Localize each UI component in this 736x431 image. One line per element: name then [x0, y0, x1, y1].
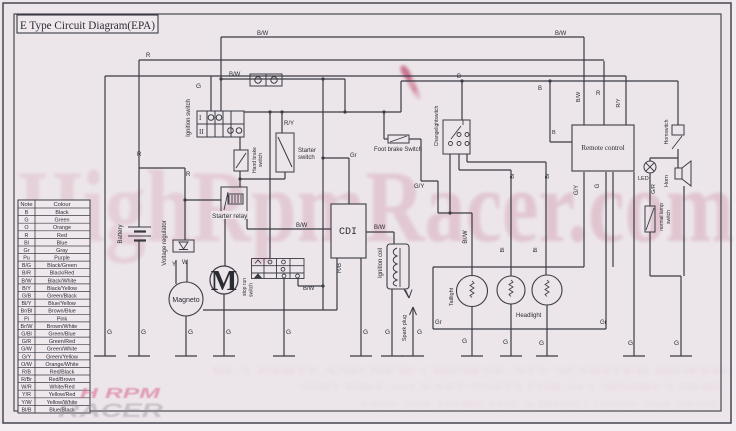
svg-text:Headlight: Headlight [516, 313, 542, 319]
svg-text:R/B: R/B [22, 369, 31, 375]
svg-text:B/W: B/W [555, 31, 567, 37]
svg-text:B: B [552, 130, 556, 136]
svg-text:Remote control: Remote control [581, 144, 624, 152]
svg-text:Orange/White: Orange/White [45, 362, 78, 368]
svg-text:Brown/White: Brown/White [47, 324, 78, 330]
svg-text:Black/Yellow: Black/Yellow [47, 286, 77, 292]
svg-text:G/W: G/W [21, 347, 33, 353]
svg-text:Ignition coil: Ignition coil [378, 248, 384, 278]
svg-text:G: G [24, 218, 28, 224]
svg-text:R: R [596, 91, 601, 97]
svg-text:O/W: O/W [21, 362, 33, 368]
svg-text:Gr: Gr [435, 320, 442, 326]
svg-text:Br/W: Br/W [463, 230, 469, 244]
svg-text:Yellow/Red: Yellow/Red [49, 392, 76, 398]
svg-text:Green/White: Green/White [47, 347, 77, 353]
svg-text:R/B: R/B [337, 263, 343, 273]
svg-text:Green/Blue: Green/Blue [48, 332, 75, 338]
svg-text:Black/Green: Black/Green [47, 263, 77, 269]
svg-text:Gr: Gr [350, 153, 357, 159]
svg-text:G: G [226, 329, 231, 336]
svg-text:W: W [182, 260, 188, 266]
svg-text:G/B: G/B [22, 294, 32, 300]
svg-text:B: B [457, 74, 461, 80]
svg-text:B/R: B/R [22, 271, 31, 277]
svg-text:G: G [107, 329, 112, 336]
svg-text:W/R: W/R [21, 385, 32, 391]
svg-text:R: R [137, 152, 142, 158]
svg-text:R/Y: R/Y [616, 98, 622, 108]
svg-text:Green/Yellow: Green/Yellow [46, 354, 78, 360]
svg-text:H RPM: H RPM [80, 385, 161, 402]
svg-text:Changelightswitch: Changelightswitch [434, 105, 440, 146]
svg-text:II: II [199, 128, 204, 136]
svg-text:G: G [628, 340, 633, 347]
svg-text:R/Y: R/Y [284, 121, 294, 127]
svg-text:stop run: stop run [242, 278, 248, 296]
svg-text:Horn: Horn [664, 175, 670, 187]
svg-text:B/W: B/W [257, 31, 269, 37]
svg-text:G: G [188, 329, 193, 336]
svg-text:Red/Black: Red/Black [50, 369, 75, 375]
svg-text:G/Y: G/Y [22, 354, 32, 360]
svg-text:O: O [24, 225, 28, 231]
svg-text:Y/R: Y/R [22, 392, 31, 398]
svg-text:Green/Black: Green/Black [47, 294, 77, 300]
svg-text:G: G [674, 340, 679, 347]
svg-text:G/Bl: G/Bl [21, 332, 31, 338]
svg-text:G: G [462, 338, 467, 345]
svg-text:switch: switch [249, 283, 255, 297]
svg-text:switch: switch [258, 153, 264, 167]
svg-text:Y: Y [172, 262, 176, 268]
svg-text:Bl: Bl [500, 248, 506, 253]
svg-text:G: G [595, 183, 601, 188]
svg-text:Br/Bl: Br/Bl [21, 309, 33, 315]
svg-text:Blue: Blue [57, 240, 68, 246]
svg-text:Magneto: Magneto [172, 297, 199, 304]
svg-text:Hornswitch: Hornswitch [664, 119, 670, 144]
svg-text:Note: Note [20, 202, 32, 208]
svg-text:B/W: B/W [576, 91, 582, 102]
svg-text:Starter: Starter [298, 148, 316, 154]
svg-text:Br: Br [545, 173, 551, 179]
svg-text:CDI: CDI [339, 227, 357, 238]
svg-text:Battery: Battery [118, 224, 124, 243]
svg-text:B/W: B/W [374, 225, 386, 231]
svg-text:Red/Brown: Red/Brown [49, 377, 76, 383]
svg-text:Bl: Bl [533, 248, 539, 253]
svg-text:normal lamp: normal lamp [659, 203, 665, 231]
svg-text:R: R [25, 233, 29, 239]
svg-text:Y/W: Y/W [21, 400, 32, 406]
svg-text:G: G [286, 329, 291, 336]
svg-text:G: G [363, 329, 368, 336]
svg-text:Blue/Yellow: Blue/Yellow [48, 301, 76, 307]
svg-text:G/R: G/R [22, 339, 32, 345]
svg-text:Br/W: Br/W [21, 324, 34, 330]
svg-text:Colour: Colour [53, 202, 70, 208]
svg-text:G/Y: G/Y [414, 184, 424, 190]
svg-text:Green/Red: Green/Red [49, 339, 75, 345]
svg-text:Starter relay: Starter relay [212, 213, 248, 220]
svg-text:B/W: B/W [296, 223, 308, 229]
svg-text:DIRT BIKE GO KART PARTS FOR AL: DIRT BIKE GO KART PARTS FOR ALL MODELS H… [300, 381, 725, 393]
svg-text:G: G [385, 329, 390, 336]
svg-text:B/W: B/W [21, 278, 32, 284]
svg-text:switch: switch [666, 210, 672, 224]
svg-text:R: R [146, 53, 151, 59]
svg-text:Gr: Gr [600, 320, 607, 326]
svg-text:Purple: Purple [54, 256, 70, 262]
svg-text:G: G [417, 329, 422, 336]
svg-text:G/R: G/R [651, 184, 657, 194]
svg-text:Br: Br [510, 173, 516, 179]
svg-text:B/G: B/G [22, 263, 31, 269]
svg-text:Bl/B: Bl/B [22, 407, 32, 413]
svg-text:White/Red: White/Red [49, 385, 74, 391]
svg-text:Bl: Bl [24, 240, 29, 246]
svg-text:Pink: Pink [57, 316, 68, 322]
svg-text:Foot brake Switch: Foot brake Switch [374, 147, 422, 153]
svg-text:Bl/Y: Bl/Y [22, 301, 32, 307]
svg-text:Brown/Blue: Brown/Blue [48, 309, 76, 315]
svg-text:B/W: B/W [229, 72, 241, 78]
svg-text:RACER: RACER [58, 401, 163, 422]
svg-text:B/W: B/W [303, 286, 315, 292]
svg-text:G: G [141, 329, 146, 336]
svg-text:Ignition switch: Ignition switch [186, 99, 192, 137]
svg-text:M: M [211, 266, 237, 297]
svg-text:Voltage regulator: Voltage regulator [162, 220, 168, 265]
svg-text:Red: Red [57, 233, 67, 239]
svg-text:G/Y: G/Y [574, 185, 580, 195]
svg-text:R: R [186, 172, 191, 178]
svg-text:G: G [539, 340, 544, 347]
svg-text:Black: Black [55, 210, 68, 216]
svg-text:Green: Green [55, 218, 70, 224]
svg-text:Black/White: Black/White [48, 278, 76, 284]
svg-text:Spark plug: Spark plug [402, 315, 408, 341]
svg-text:E Type Circuit Diagram(EPA): E Type Circuit Diagram(EPA) [20, 18, 155, 32]
svg-text:B: B [25, 210, 29, 216]
svg-text:G: G [503, 339, 508, 346]
svg-text:LED: LED [638, 176, 649, 182]
svg-text:switch: switch [298, 155, 315, 161]
svg-text:BUY PARTS AND NEW CHINESE ATV: BUY PARTS AND NEW CHINESE ATV SCOOTER MO… [212, 365, 727, 377]
svg-text:Taillight: Taillight [449, 287, 455, 306]
svg-text:Gray: Gray [56, 248, 68, 254]
svg-text:Pu: Pu [23, 256, 30, 262]
svg-text:G: G [196, 83, 201, 90]
svg-text:Gr: Gr [24, 248, 30, 254]
svg-text:VISIT THE STORE FOR WIRING LOO: VISIT THE STORE FOR WIRING LOOMS AND MOR… [360, 399, 720, 411]
svg-text:R/Br: R/Br [21, 377, 32, 383]
svg-text:B: B [538, 86, 542, 92]
svg-text:Pi: Pi [24, 316, 29, 322]
svg-text:Black/Red: Black/Red [50, 271, 75, 277]
svg-text:B/Y: B/Y [22, 286, 31, 292]
svg-text:Orange: Orange [53, 225, 71, 231]
